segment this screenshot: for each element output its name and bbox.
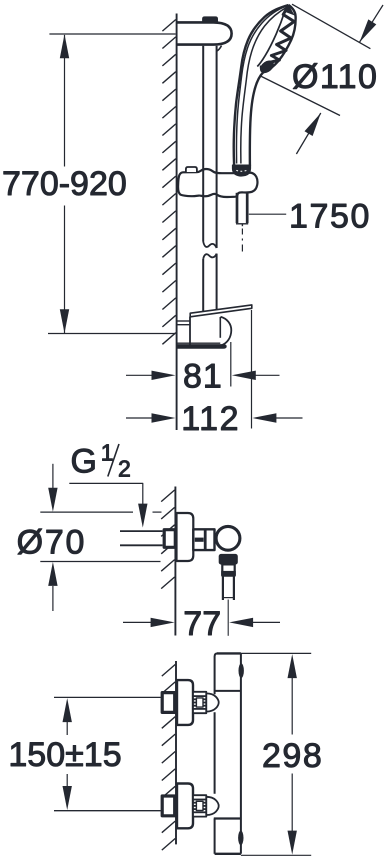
- dimension 770-920 line and arrows: [64, 35, 66, 167]
- wall hatching (top): [162, 20, 175, 32]
- pipe union nut (middle): [164, 530, 175, 548]
- dome cap: [206, 693, 218, 711]
- hose centerline dash-dot: [241, 229, 243, 235]
- dimension 298 extension top: [241, 652, 311, 654]
- dimension Ø110 extension line lower: [260, 76, 341, 116]
- connection nut ribbed: [193, 795, 206, 816]
- dome cap: [206, 797, 218, 815]
- bracket to rail fillet: [217, 46, 222, 51]
- slider lock tab: [186, 167, 197, 172]
- soap dish holder body: [189, 317, 191, 345]
- dimension 77: [123, 621, 152, 623]
- safestop button top: [239, 663, 244, 678]
- dimension 81 extension line right: [230, 342, 232, 387]
- dimension 298: [291, 678, 293, 735]
- supply elbow nut (in wall): [162, 693, 175, 713]
- hand shower handle end cap: [232, 165, 250, 176]
- svg-text:150±15: 150±15: [8, 736, 121, 774]
- rail top bracket: [178, 22, 232, 44]
- svg-text:Ø110: Ø110: [292, 58, 378, 96]
- Ø110 arrow upper: [360, 5, 384, 42]
- button bottom: [238, 831, 243, 846]
- fitting body: [193, 529, 214, 550]
- svg-text:770-920: 770-920: [2, 165, 127, 203]
- connection nut ribbed: [193, 692, 206, 713]
- spray face bottom blob: [258, 58, 277, 76]
- dimension 770-920 extension line top: [49, 33, 175, 35]
- svg-text:2: 2: [118, 456, 131, 482]
- outlet upper tube: [222, 564, 234, 575]
- rail break squiggle upper: [203, 242, 216, 249]
- dimension 112 extension line right: [251, 310, 253, 429]
- wall hatching (middle): [161, 490, 174, 502]
- supply pipe line bottom / 150 ext bottom: [54, 810, 161, 812]
- svg-text:298: 298: [262, 737, 323, 775]
- dimension Ø110 extension line upper: [292, 4, 370, 49]
- dimension 150±15: [66, 722, 68, 735]
- hand shower outer outline: [234, 5, 289, 166]
- spray face nozzle zigzag: [260, 6, 294, 68]
- svg-text:Ø70: Ø70: [17, 524, 87, 562]
- thermostat body: [240, 653, 242, 853]
- svg-text:81: 81: [183, 357, 223, 395]
- shower rail (lower section): [202, 259, 204, 313]
- supply pipe (middle): [120, 530, 163, 532]
- escutcheon: [177, 784, 193, 829]
- soap dish holder bottom bar: [178, 345, 227, 349]
- soap dish tray: [190, 305, 252, 317]
- escutcheon: [177, 680, 193, 725]
- dimension Ø70 arrows: [52, 464, 54, 489]
- dimension Ø70 extension lines: [40, 511, 133, 513]
- svg-text:G: G: [71, 443, 97, 481]
- Ø110 arrow lower: [296, 113, 320, 154]
- hand shower inner contour lines: [236, 6, 286, 164]
- bracket mounting knob: [203, 17, 218, 22]
- supply elbow nut (in wall): [162, 796, 175, 816]
- control knob: [216, 526, 240, 550]
- supply pipe line top / 150 ext top: [54, 696, 161, 698]
- wall flange Ø70: [177, 513, 194, 561]
- outlet collar: [219, 554, 238, 565]
- spray face inner edge: [257, 11, 285, 66]
- outlet centerline / extension: [227, 600, 229, 636]
- wall hatching (bottom): [162, 665, 175, 677]
- dimension 770-920 extension line bottom: [48, 333, 176, 335]
- outlet lower tube: [222, 576, 224, 600]
- soap dish wall fixing: [178, 320, 191, 322]
- leader line 1750: [249, 213, 286, 215]
- svg-text:1750: 1750: [289, 198, 371, 236]
- shower holder slider body: [178, 169, 257, 197]
- dimension 298 extension bottom: [241, 854, 311, 856]
- rail break squiggle lower: [203, 254, 216, 259]
- G1/2 leader with arrow: [69, 483, 143, 505]
- svg-text:112: 112: [181, 400, 240, 438]
- svg-text:77: 77: [183, 605, 221, 643]
- dimension 112: [126, 417, 153, 419]
- shower hose connector tube: [236, 193, 239, 223]
- svg-text:1: 1: [101, 440, 114, 466]
- wall (top drawing): [176, 14, 178, 431]
- spray face tip wedge: [284, 5, 295, 16]
- shower rail (upper section): [202, 46, 204, 242]
- wall (middle drawing): [174, 487, 176, 636]
- dimension 81: [126, 374, 153, 376]
- wall (bottom drawing): [175, 661, 177, 844]
